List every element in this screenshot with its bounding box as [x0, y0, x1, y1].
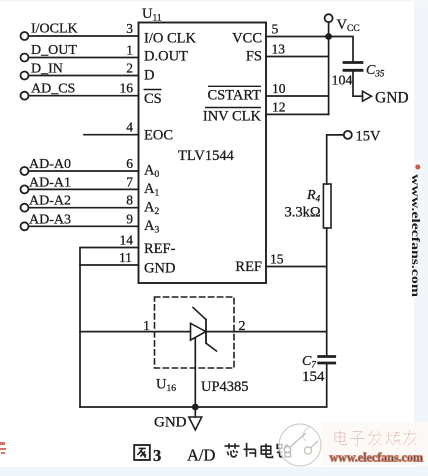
svg-text:1: 1	[126, 43, 133, 58]
svg-text:3: 3	[153, 446, 161, 465]
svg-text:7: 7	[126, 175, 133, 190]
svg-text:UP4385: UP4385	[201, 379, 249, 395]
svg-text:GND: GND	[375, 90, 409, 107]
svg-text:11: 11	[119, 250, 132, 265]
svg-text:GND: GND	[154, 415, 187, 431]
svg-text:A/D: A/D	[187, 446, 216, 465]
svg-text:2: 2	[239, 319, 246, 334]
svg-text:D_OUT: D_OUT	[31, 43, 77, 58]
svg-text:REF-: REF-	[144, 241, 176, 257]
svg-text:D_IN: D_IN	[31, 62, 63, 77]
svg-text:6: 6	[126, 156, 133, 171]
svg-text:GND: GND	[144, 261, 175, 277]
svg-text:VCC: VCC	[232, 31, 262, 47]
svg-text:15: 15	[270, 252, 284, 267]
svg-text:REF: REF	[235, 259, 262, 275]
svg-text:CSTART: CSTART	[207, 88, 261, 104]
svg-text:www.elecfans.com: www.elecfans.com	[330, 451, 424, 465]
svg-text:AD-A2: AD-A2	[29, 194, 71, 209]
svg-text:I/O CLK: I/O CLK	[144, 31, 196, 47]
svg-text:14: 14	[120, 233, 134, 248]
svg-text:10: 10	[272, 81, 286, 96]
svg-text:AD-A1: AD-A1	[29, 176, 71, 191]
svg-text:15V: 15V	[356, 129, 382, 145]
svg-text:16: 16	[120, 81, 134, 96]
svg-text:EOC: EOC	[144, 128, 173, 144]
svg-text:3.3kΩ: 3.3kΩ	[285, 205, 321, 221]
svg-text:8: 8	[126, 193, 133, 208]
svg-text:AD-A0: AD-A0	[29, 157, 71, 172]
svg-text:AD_CS: AD_CS	[31, 82, 75, 97]
svg-text:www.elecfans.com: www.elecfans.com	[409, 174, 423, 297]
svg-text:D.OUT: D.OUT	[144, 49, 188, 65]
svg-text:I/OCLK: I/OCLK	[31, 22, 78, 37]
svg-text:TLV1544: TLV1544	[178, 148, 235, 164]
svg-text:9: 9	[126, 211, 133, 226]
svg-text:154: 154	[302, 369, 325, 385]
svg-text:2: 2	[126, 61, 133, 76]
svg-text:4: 4	[126, 120, 133, 135]
svg-text:104: 104	[332, 74, 353, 89]
svg-text:13: 13	[272, 42, 286, 57]
svg-text:1: 1	[143, 319, 150, 334]
svg-text:3: 3	[126, 21, 133, 36]
svg-text:FS: FS	[246, 49, 262, 65]
svg-text:AD-A3: AD-A3	[29, 213, 71, 228]
svg-text:CS: CS	[144, 91, 162, 107]
svg-text:INV CLK: INV CLK	[203, 109, 262, 125]
svg-text:5: 5	[272, 22, 279, 37]
svg-text:12: 12	[272, 100, 286, 115]
svg-text:D: D	[144, 68, 154, 84]
